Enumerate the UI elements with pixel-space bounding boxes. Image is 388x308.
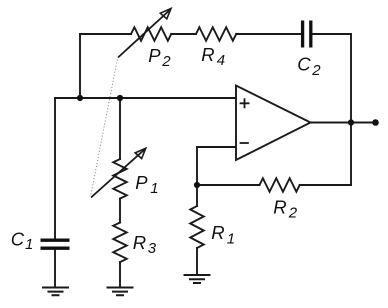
resistor R1 zigzag body [190,206,204,248]
op-amp minus input sign [240,142,249,144]
label P2 [148,45,171,70]
resistor R4 zigzag body [196,27,236,41]
label R1 [211,222,235,248]
wire between P2 and R4 [171,33,196,35]
svg-text:2: 2 [161,53,171,70]
junction dot output node [348,119,354,125]
ground for R1 [184,275,211,283]
svg-text:P: P [148,45,161,66]
wire noninverting input bus [55,97,236,99]
svg-text:3: 3 [148,240,157,257]
wire left vertical down to C1 [54,98,56,239]
label R3 [133,232,157,257]
label R2 [273,197,298,222]
wire C1 bottom plate to ground [54,250,56,288]
potentiometer P1 zigzag body [113,159,127,199]
wire op-amp output [311,122,376,124]
svg-text:2: 2 [288,205,298,222]
wire inverting input vertical down to node C [196,147,198,185]
wire C2 right plate to right rail corner [313,33,352,35]
svg-text:R: R [273,197,286,218]
resistor R2 zigzag body [260,178,300,192]
dotted gang line between P2 and P1 [91,60,118,196]
svg-text:R: R [133,232,146,253]
svg-text:1: 1 [150,180,158,197]
potentiometer P2 wiper arrow shaft [118,10,170,58]
wire top-left vertical from node A up to top rail [79,34,81,98]
svg-text:P: P [135,172,148,193]
wire inverting input horizontal [197,146,236,148]
wire R3 bottom to ground [119,262,121,287]
svg-text:2: 2 [311,62,321,79]
wire node B down to P1 top [119,98,121,159]
label C1 [11,229,34,254]
junction dot node B [117,95,123,101]
svg-text:C: C [11,229,25,250]
wire node C to R2 [197,184,260,186]
svg-text:R: R [201,44,214,65]
ground for R3 [107,288,134,296]
junction dot node C [194,182,200,188]
resistor R3 zigzag body [113,223,127,263]
potentiometer P2 wiper arrowhead [160,9,171,19]
svg-text:1: 1 [25,236,33,253]
svg-text:4: 4 [217,52,225,69]
potentiometer P1 wiper arrowhead [135,148,146,158]
wire top rail left segment [80,33,131,35]
capacitor C1 plates [41,240,70,248]
op-amp plus input sign [240,98,250,108]
svg-text:C: C [297,54,311,75]
wire between R4 and C2 [236,33,301,35]
potentiometer P2 zigzag body [131,27,171,41]
output terminal dot [372,119,379,126]
label C2 [297,54,321,80]
svg-text:R: R [211,222,224,243]
junction dot node A [77,95,83,101]
label R4 [201,44,225,69]
op-amp U1 triangle [236,86,311,161]
wire right vertical rail from C2 corner down to R2 corner [350,34,352,185]
wire R1 bottom to ground [196,248,198,275]
potentiometer P1 wiper arrow shaft [91,149,145,197]
wire node C down to R1 [196,185,198,206]
wire R2 to right rail [300,184,351,186]
svg-text:1: 1 [227,231,235,248]
wire between P1 and R3 [119,199,121,223]
capacitor C2 plates [303,21,311,48]
label P1 [135,172,158,197]
ground for C1 [42,288,69,296]
